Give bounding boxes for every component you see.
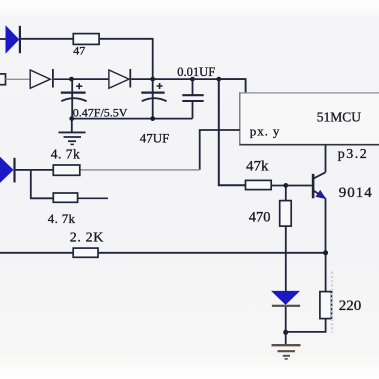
wire <box>21 38 73 40</box>
wire <box>6 78 31 80</box>
resistor R 4.7k (upper) <box>51 147 81 176</box>
resistor R 4.7k (lower) <box>48 193 78 226</box>
wire <box>271 185 312 187</box>
node (R47 drop junction) <box>150 77 155 82</box>
wire <box>99 39 153 79</box>
wire (px.y pin) <box>200 130 240 170</box>
diode D2 <box>30 69 69 88</box>
capacitor C1 0.47F/5.5V <box>61 79 128 119</box>
resistor 47k <box>246 159 272 190</box>
svg-text:470: 470 <box>249 210 271 226</box>
node (ground rail left) <box>69 116 74 121</box>
node (base junction) <box>283 183 288 188</box>
wire <box>72 78 109 80</box>
wire (emitter down) <box>325 198 327 252</box>
LED D1 (blue, top-left) <box>0 26 21 53</box>
transistor Q1 9014 <box>312 145 373 202</box>
capacitor C3 0.01UF <box>177 65 215 118</box>
svg-text:47: 47 <box>73 44 85 58</box>
resistor 470 <box>249 185 291 226</box>
resistor 220 <box>286 253 362 332</box>
node (47UF bottom) <box>150 116 155 121</box>
svg-text:4. 7k: 4. 7k <box>51 147 81 162</box>
svg-text:220: 220 <box>339 298 362 314</box>
svg-text:2. 2K: 2. 2K <box>70 231 104 246</box>
ground GND1 <box>59 119 86 145</box>
node (LED/220 junction) <box>283 330 288 335</box>
wire (2.2K rail) <box>0 252 326 254</box>
node (MCU feed junction) <box>216 77 221 82</box>
wire <box>153 78 193 80</box>
wire <box>31 169 54 171</box>
wire (to MCU top) <box>219 79 246 93</box>
pin p3.2 label <box>338 147 369 162</box>
wire (bottom rail) <box>72 118 193 120</box>
wire (stub) <box>78 197 108 199</box>
svg-text:47k: 47k <box>246 159 269 175</box>
IC U1 51MCU <box>239 92 379 144</box>
wire (gray, px.y to 4.7k) <box>81 169 200 171</box>
svg-text:0.01UF: 0.01UF <box>177 65 215 79</box>
LED D4 (blue, left) <box>0 158 31 183</box>
resistor 2.2K <box>70 231 104 258</box>
svg-text:51MCU: 51MCU <box>317 109 362 124</box>
diode D3 <box>109 69 131 88</box>
capacitor C2 47UF <box>140 79 170 145</box>
svg-text:47UF: 47UF <box>140 131 170 146</box>
node (rail/emitter junction) <box>323 250 328 255</box>
svg-text:9014: 9014 <box>339 185 373 201</box>
connector J1 <box>0 74 6 85</box>
svg-text:p3.2: p3.2 <box>338 147 369 162</box>
wire <box>131 78 153 80</box>
wire (split down) <box>31 170 54 198</box>
wire (470 to LED) <box>285 226 287 291</box>
resistor 47 <box>73 34 99 58</box>
svg-text:4. 7k: 4. 7k <box>48 211 76 226</box>
node (diode/cap junction) <box>69 77 74 82</box>
svg-text:0.47F/5.5V: 0.47F/5.5V <box>73 105 128 119</box>
wire <box>193 78 219 80</box>
node (0.01UF top) <box>190 77 195 82</box>
wire (junction drop to 47k) <box>219 79 246 185</box>
ground GND2 <box>272 332 301 359</box>
svg-text:px. y: px. y <box>250 124 280 139</box>
ruler artifact <box>331 272 333 334</box>
LED D5 (blue, bottom) <box>272 291 300 332</box>
